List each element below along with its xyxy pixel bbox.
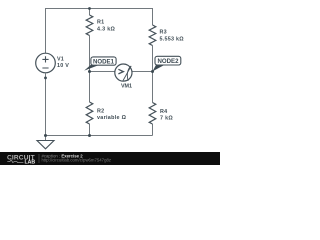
svg-text:V1: V1 — [57, 57, 64, 63]
wire right branch stub below top wire — [152, 9, 154, 26]
svg-text:NODE1: NODE1 — [93, 58, 115, 65]
svg-text:R3: R3 — [160, 30, 167, 36]
svg-text:NODE2: NODE2 — [158, 58, 180, 65]
voltmeter VM1 — [115, 64, 132, 81]
wire ground stub — [45, 136, 47, 141]
wire mid branch node A to R2 top — [89, 72, 91, 103]
wire middle left (node A to voltmeter) — [90, 71, 115, 73]
resistor R3 — [149, 25, 156, 46]
wire bottom horizontal — [46, 135, 153, 137]
junction dot bottom left — [44, 134, 47, 137]
junction dot below V1 — [44, 77, 47, 80]
junction dot top mid — [88, 7, 91, 10]
wire mid branch R1 bottom to node A — [89, 36, 91, 72]
svg-text:http://circuitlab.com/c/pw6m75: http://circuitlab.com/c/pw6m7547g8z — [42, 158, 112, 163]
wire middle right (voltmeter to node B) — [132, 71, 153, 73]
node NODE1 flag — [84, 65, 100, 71]
wire top horizontal — [45, 8, 153, 10]
node A junction dot — [88, 70, 91, 73]
wire left vertical upper (to V1 top) — [45, 9, 47, 54]
svg-text:R4: R4 — [160, 109, 167, 115]
svg-text:10 V: 10 V — [57, 63, 69, 69]
resistor R1 — [86, 15, 93, 36]
resistor R4 — [149, 103, 156, 125]
svg-text:VM1: VM1 — [121, 83, 132, 89]
footer bar — [0, 152, 220, 165]
svg-text:4.3 kΩ: 4.3 kΩ — [97, 26, 115, 32]
wire right branch R4 bottom to bottom wire — [152, 124, 154, 136]
wire left vertical lower (V1 bottom to bottom wire) — [45, 74, 47, 136]
svg-text:R1: R1 — [97, 20, 104, 26]
wire right branch node B to R4 top — [152, 72, 154, 103]
wire mid branch R2 bottom to bottom wire — [89, 124, 91, 136]
separator — [38, 154, 40, 163]
svg-text:5.553 kΩ: 5.553 kΩ — [160, 37, 185, 43]
voltage source V1 — [36, 53, 56, 73]
node NODE2 flag — [153, 65, 165, 72]
svg-text:7 kΩ: 7 kΩ — [160, 115, 173, 121]
node B junction dot — [151, 70, 154, 73]
svg-text:LAB: LAB — [25, 160, 36, 166]
junction dot bottom mid — [88, 134, 91, 137]
ground — [37, 141, 54, 149]
svg-text:R2: R2 — [97, 108, 104, 114]
wire right branch R3 bottom to node B — [152, 46, 154, 72]
svg-text:variable Ω: variable Ω — [97, 115, 127, 121]
wire mid branch stub below top wire — [89, 9, 91, 16]
resistor R2 — [86, 102, 93, 124]
